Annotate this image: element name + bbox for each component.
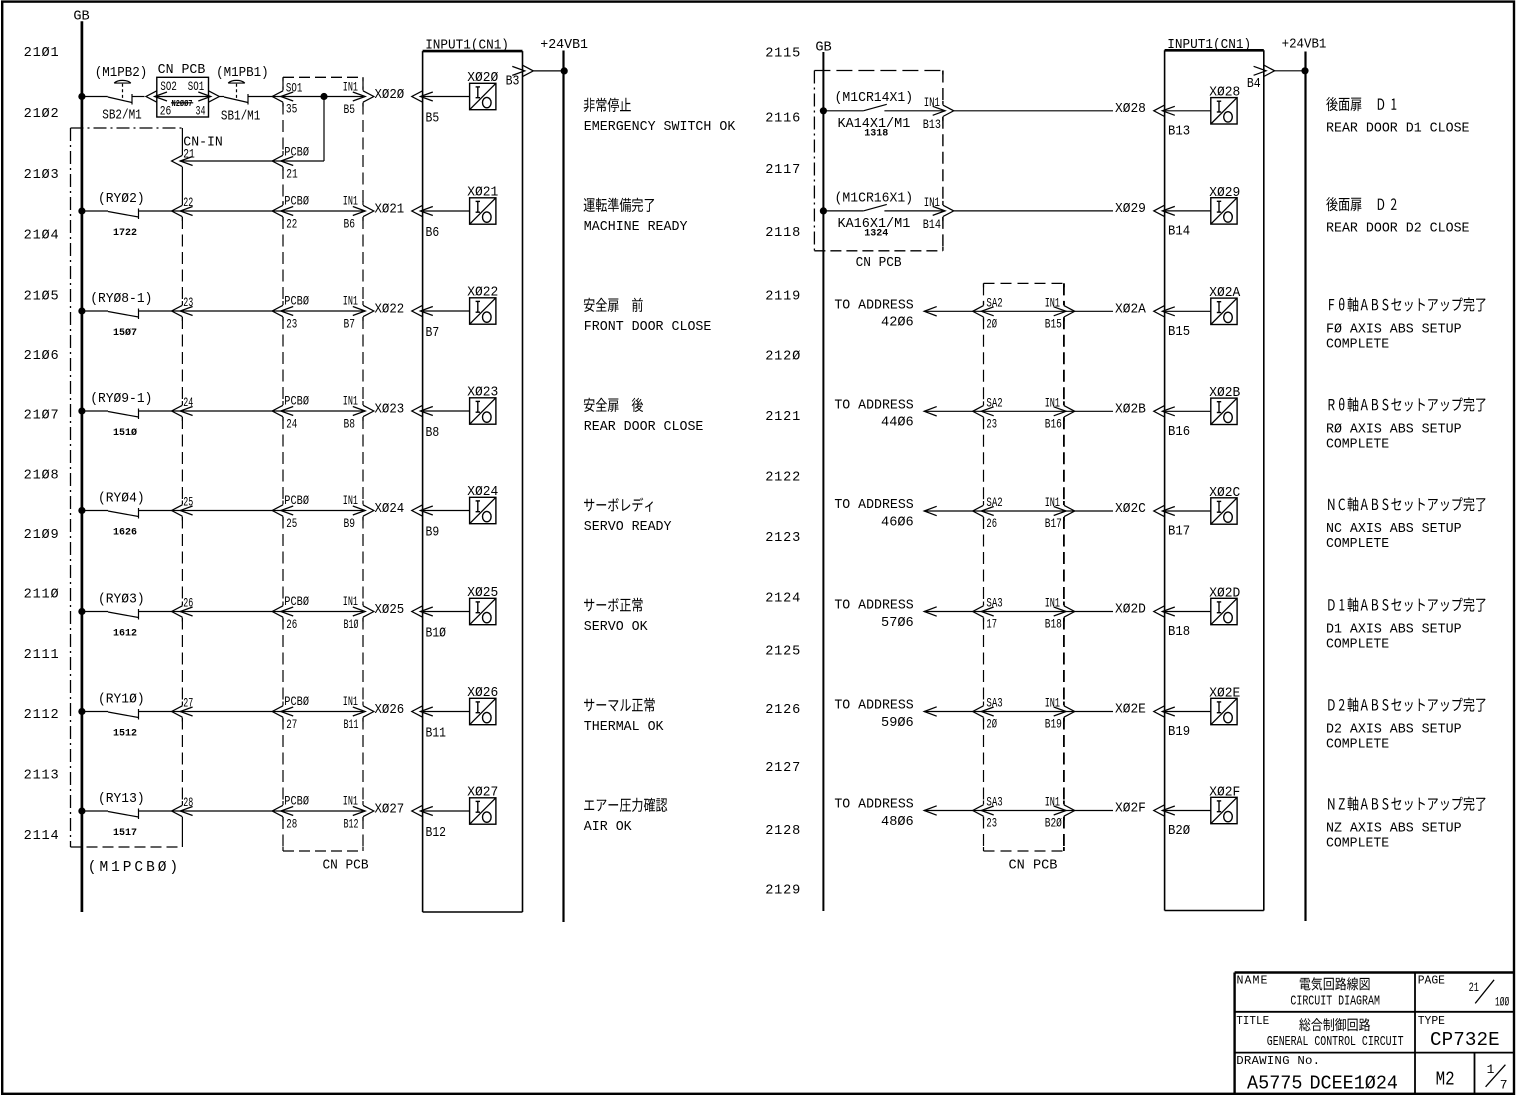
svg-text:B15: B15 [1168,323,1190,339]
svg-text:FRONT DOOR CLOSE: FRONT DOOR CLOSE [584,320,712,335]
svg-text:COMPLETE: COMPLETE [1326,638,1389,653]
svg-text:(RY1Ø): (RY1Ø) [98,691,145,706]
svg-text:23: 23 [986,418,997,432]
svg-text:B2Ø: B2Ø [1168,823,1190,839]
svg-text:B17: B17 [1168,523,1190,539]
svg-text:IN1: IN1 [1045,597,1061,611]
svg-text:D1 AXIS ABS SETUP: D1 AXIS ABS SETUP [1326,622,1462,637]
svg-text:28: 28 [286,818,297,832]
svg-text:SA3: SA3 [986,597,1002,611]
svg-text:B3: B3 [506,74,520,89]
svg-text:A5775: A5775 [1247,1072,1302,1094]
svg-text:CIRCUIT DIAGRAM: CIRCUIT DIAGRAM [1290,993,1380,1009]
svg-text:TO ADDRESS: TO ADDRESS [834,498,913,513]
svg-text:1ØØ: 1ØØ [1495,996,1510,1011]
svg-text:B5: B5 [426,111,440,126]
svg-text:B2Ø: B2Ø [1045,818,1062,832]
svg-text:21Ø8: 21Ø8 [24,468,59,483]
svg-text:COMPLETE: COMPLETE [1326,537,1389,552]
svg-text:IN1: IN1 [343,195,359,209]
svg-text:23: 23 [286,318,297,332]
svg-text:(RY13): (RY13) [98,791,145,806]
svg-text:SA2: SA2 [986,497,1002,511]
svg-text:REAR DOOR D2 CLOSE: REAR DOOR D2 CLOSE [1326,222,1470,237]
svg-text:NZ AXIS ABS SETUP: NZ AXIS ABS SETUP [1326,821,1462,836]
svg-text:21Ø7: 21Ø7 [24,409,59,424]
svg-text:2129: 2129 [765,884,800,899]
svg-text:XØ27: XØ27 [467,784,498,799]
svg-text:B5: B5 [344,103,356,118]
svg-text:2123: 2123 [765,531,800,546]
svg-text:XØ21: XØ21 [375,201,405,217]
svg-text:B19: B19 [1045,719,1062,733]
svg-text:XØ23: XØ23 [375,401,405,417]
svg-text:DRAWING No.: DRAWING No. [1236,1054,1320,1068]
svg-text:PCBØ: PCBØ [284,293,309,309]
svg-text:(M1CR14X1): (M1CR14X1) [835,91,914,106]
svg-text:TO ADDRESS: TO ADDRESS [834,598,913,613]
svg-text:TO ADDRESS: TO ADDRESS [834,698,913,713]
svg-text:1512: 1512 [113,729,137,740]
svg-text:27: 27 [183,697,193,711]
svg-text:B17: B17 [1045,518,1062,532]
svg-text:(RYØ4): (RYØ4) [98,490,145,505]
svg-text:21Ø6: 21Ø6 [24,349,59,364]
svg-text:23: 23 [986,817,997,831]
svg-text:TYPE: TYPE [1418,1015,1445,1028]
svg-text:2112: 2112 [24,708,59,723]
svg-text:IN1: IN1 [343,81,359,95]
svg-text:1612: 1612 [113,629,137,640]
svg-text:24: 24 [183,397,193,411]
svg-text:XØ2C: XØ2C [1209,485,1240,500]
svg-text:IN1: IN1 [343,595,359,609]
svg-text:B8: B8 [426,425,440,440]
svg-text:22: 22 [286,218,297,232]
svg-text:42Ø6: 42Ø6 [881,316,914,331]
svg-text:+24VB1: +24VB1 [1282,36,1327,52]
svg-text:151Ø: 151Ø [113,427,137,439]
svg-text:IN1: IN1 [343,795,359,809]
svg-text:PCBØ: PCBØ [284,793,309,809]
svg-text:7: 7 [1500,1077,1508,1092]
svg-text:XØ22: XØ22 [467,284,498,299]
svg-text:25: 25 [183,496,193,510]
svg-text:PCBØ: PCBØ [284,594,309,610]
svg-text:1517: 1517 [113,828,137,839]
svg-text:26: 26 [286,619,297,633]
svg-text:PAGE: PAGE [1418,975,1445,988]
svg-text:2128: 2128 [765,824,800,839]
svg-text:2124: 2124 [765,592,800,607]
svg-text:2119: 2119 [765,289,800,304]
svg-text:212Ø: 212Ø [765,350,800,365]
svg-text:57Ø6: 57Ø6 [881,616,914,631]
svg-text:REAR DOOR CLOSE: REAR DOOR CLOSE [584,420,704,435]
svg-text:17: 17 [986,618,997,632]
svg-text:IN1: IN1 [343,695,359,709]
svg-text:B9: B9 [344,517,356,532]
svg-text:XØ26: XØ26 [467,685,498,700]
svg-text:EMERGENCY SWITCH OK: EMERGENCY SWITCH OK [584,120,736,135]
svg-text:1324: 1324 [864,228,888,239]
svg-text:21Ø5: 21Ø5 [24,290,59,305]
svg-text:21Ø3: 21Ø3 [24,168,59,183]
svg-text:21: 21 [183,147,195,162]
svg-text:(M1CR16X1): (M1CR16X1) [835,191,914,206]
svg-text:GENERAL CONTROL CIRCUIT: GENERAL CONTROL CIRCUIT [1267,1033,1404,1049]
svg-text:XØ2B: XØ2B [1115,401,1146,416]
svg-text:SO1: SO1 [188,81,205,95]
svg-text:RØ AXIS ABS SETUP: RØ AXIS ABS SETUP [1326,422,1462,437]
svg-text:XØ2Ø: XØ2Ø [375,86,405,102]
svg-text:XØ24: XØ24 [467,484,498,499]
svg-text:B12: B12 [344,818,359,832]
svg-text:XØ28: XØ28 [1115,101,1146,116]
svg-text:CP732E: CP732E [1430,1029,1500,1051]
svg-text:211Ø: 211Ø [24,588,59,603]
svg-text:AIR OK: AIR OK [584,820,633,835]
svg-text:28: 28 [183,797,193,811]
svg-text:2125: 2125 [765,645,800,660]
svg-text:IN1: IN1 [1045,697,1061,711]
svg-text:CN PCB: CN PCB [323,857,369,872]
svg-text:CN PCB: CN PCB [158,63,206,78]
svg-text:2113: 2113 [24,769,59,784]
svg-text:21Ø2: 21Ø2 [24,107,59,122]
svg-text:M2: M2 [1436,1069,1455,1091]
svg-text:B11: B11 [426,726,446,741]
svg-text:(M1PB2): (M1PB2) [95,65,148,81]
svg-text:B14: B14 [923,217,941,233]
svg-text:COMPLETE: COMPLETE [1326,437,1389,452]
svg-text:XØ23: XØ23 [467,384,498,399]
svg-text:15Ø7: 15Ø7 [113,327,137,339]
svg-text:34: 34 [196,105,206,119]
svg-text:IN1: IN1 [343,494,359,508]
svg-text:XØ29: XØ29 [1115,201,1146,216]
svg-text:CN PCB: CN PCB [856,255,902,270]
svg-text:XØ21: XØ21 [467,184,498,199]
svg-text:44Ø6: 44Ø6 [881,416,914,431]
svg-text:NAME: NAME [1237,975,1268,988]
svg-text:(M1PB1): (M1PB1) [216,65,269,81]
svg-text:B4: B4 [1247,76,1261,91]
svg-text:2115: 2115 [765,47,800,62]
svg-text:DCEE1Ø24: DCEE1Ø24 [1310,1072,1398,1094]
svg-text:CN PCB: CN PCB [1009,858,1058,873]
svg-text:XØ2F: XØ2F [1209,784,1240,799]
svg-text:2127: 2127 [765,761,800,776]
svg-text:PCBØ: PCBØ [284,694,309,710]
svg-text:59Ø6: 59Ø6 [881,716,914,731]
svg-text:XØ27: XØ27 [375,801,405,817]
svg-text:B12: B12 [426,825,446,840]
svg-text:COMPLETE: COMPLETE [1326,337,1389,352]
svg-text:D2 AXIS ABS SETUP: D2 AXIS ABS SETUP [1326,722,1462,737]
svg-text:IN1: IN1 [343,395,359,409]
svg-text:B6: B6 [426,225,440,240]
svg-text:XØ22: XØ22 [375,301,405,317]
svg-text:TO ADDRESS: TO ADDRESS [834,398,913,413]
svg-text:26: 26 [160,104,172,119]
svg-text:2122: 2122 [765,471,800,486]
svg-text:2121: 2121 [765,410,800,425]
svg-text:B8: B8 [344,417,356,432]
svg-text:(RYØ8-1): (RYØ8-1) [90,291,152,306]
svg-text:XØ25: XØ25 [467,585,498,600]
svg-text:XØ2A: XØ2A [1115,301,1146,316]
svg-text:XØ2C: XØ2C [1115,501,1146,516]
svg-text:21Ø4: 21Ø4 [24,229,59,244]
svg-text:SO2: SO2 [160,81,176,95]
svg-text:TO ADDRESS: TO ADDRESS [834,298,913,313]
svg-text:XØ2D: XØ2D [1209,585,1240,600]
svg-text:IN1: IN1 [1045,297,1061,311]
svg-text:B6: B6 [344,217,356,232]
svg-text:21: 21 [1469,982,1480,996]
svg-text:B13: B13 [1168,123,1190,139]
svg-text:XØ2D: XØ2D [1115,601,1146,616]
svg-text:21Ø9: 21Ø9 [24,528,59,543]
svg-text:B18: B18 [1045,619,1062,633]
svg-text:B18: B18 [1168,624,1190,640]
svg-text:2126: 2126 [765,703,800,718]
svg-text:B19: B19 [1168,724,1190,740]
svg-text:(RYØ2): (RYØ2) [98,191,145,206]
svg-text:21: 21 [286,167,298,182]
svg-text:2Ø: 2Ø [986,718,997,732]
svg-text:SB1/M1: SB1/M1 [221,108,260,123]
svg-text:SA3: SA3 [986,796,1002,810]
svg-text:35: 35 [286,102,298,117]
svg-text:(RYØ3): (RYØ3) [98,591,145,606]
svg-text:26: 26 [986,518,997,532]
svg-text:IN1: IN1 [343,295,359,309]
svg-text:XØ28: XØ28 [1209,84,1240,99]
svg-text:SA2: SA2 [986,297,1002,311]
svg-text:SERVO OK: SERVO OK [584,620,649,635]
svg-text:2114: 2114 [24,829,59,844]
svg-text:2118: 2118 [765,226,800,241]
svg-text:(RYØ9-1): (RYØ9-1) [90,391,152,406]
svg-text:COMPLETE: COMPLETE [1326,738,1389,753]
svg-text:B16: B16 [1045,418,1062,432]
svg-text:XØ2E: XØ2E [1115,701,1146,716]
svg-text:B13: B13 [923,117,941,133]
svg-text:XØ26: XØ26 [375,701,405,717]
svg-text:B16: B16 [1168,423,1190,439]
svg-text:PCBØ: PCBØ [284,393,309,409]
svg-text:25: 25 [286,518,297,532]
svg-text:2111: 2111 [24,648,59,663]
svg-text:REAR DOOR D1 CLOSE: REAR DOOR D1 CLOSE [1326,121,1470,136]
svg-text:B14: B14 [1168,223,1190,239]
svg-text:27: 27 [286,719,297,733]
svg-text:SO1: SO1 [286,82,303,96]
svg-text:FØ AXIS ABS SETUP: FØ AXIS ABS SETUP [1326,322,1462,337]
svg-text:SA3: SA3 [986,697,1002,711]
svg-text:SERVO READY: SERVO READY [584,520,672,535]
svg-text:XØ2B: XØ2B [1209,385,1240,400]
svg-text:XØ29: XØ29 [1209,185,1240,200]
svg-text:1: 1 [1487,1062,1495,1077]
svg-text:N2ØØ7: N2ØØ7 [172,99,193,109]
svg-text:46Ø6: 46Ø6 [881,515,914,530]
svg-text:23: 23 [183,297,193,311]
svg-text:B1Ø: B1Ø [426,626,447,641]
svg-text:B15: B15 [1045,318,1062,332]
svg-text:PCBØ: PCBØ [284,193,309,209]
svg-text:22: 22 [183,197,193,211]
svg-text:1318: 1318 [864,128,888,139]
svg-text:COMPLETE: COMPLETE [1326,837,1389,852]
svg-text:26: 26 [183,597,193,611]
svg-text:XØ2Ø: XØ2Ø [467,70,498,85]
svg-text:THERMAL OK: THERMAL OK [584,720,665,735]
svg-text:XØ24: XØ24 [375,500,405,516]
svg-text:B1Ø: B1Ø [344,618,359,632]
svg-text:SA2: SA2 [986,397,1002,411]
svg-text:2117: 2117 [765,163,800,178]
svg-text:IN1: IN1 [1045,796,1061,810]
svg-text:B7: B7 [426,325,440,340]
svg-text:21Ø1: 21Ø1 [24,46,59,61]
svg-text:B7: B7 [344,317,355,332]
svg-text:TITLE: TITLE [1236,1016,1269,1028]
svg-text:XØ2A: XØ2A [1209,285,1240,300]
svg-text:2116: 2116 [765,111,800,126]
svg-text:SB2/M1: SB2/M1 [102,107,141,122]
svg-text:2Ø: 2Ø [986,318,997,332]
svg-text:XØ2E: XØ2E [1209,685,1240,700]
svg-text:XØ25: XØ25 [375,601,405,617]
svg-text:B9: B9 [426,525,440,540]
svg-text:PCBØ: PCBØ [284,145,309,161]
svg-text:1626: 1626 [113,528,137,539]
svg-text:B11: B11 [344,718,359,732]
svg-text:24: 24 [286,418,297,432]
svg-text:PCBØ: PCBØ [284,493,309,509]
svg-text:MACHINE READY: MACHINE READY [584,220,688,235]
svg-text:NC AXIS ABS SETUP: NC AXIS ABS SETUP [1326,522,1462,537]
svg-text:XØ2F: XØ2F [1115,800,1146,815]
svg-text:1722: 1722 [113,228,137,239]
svg-text:IN1: IN1 [1045,497,1061,511]
svg-text:IN1: IN1 [1045,397,1061,411]
svg-text:48Ø6: 48Ø6 [881,815,914,830]
svg-text:TO ADDRESS: TO ADDRESS [834,797,913,812]
